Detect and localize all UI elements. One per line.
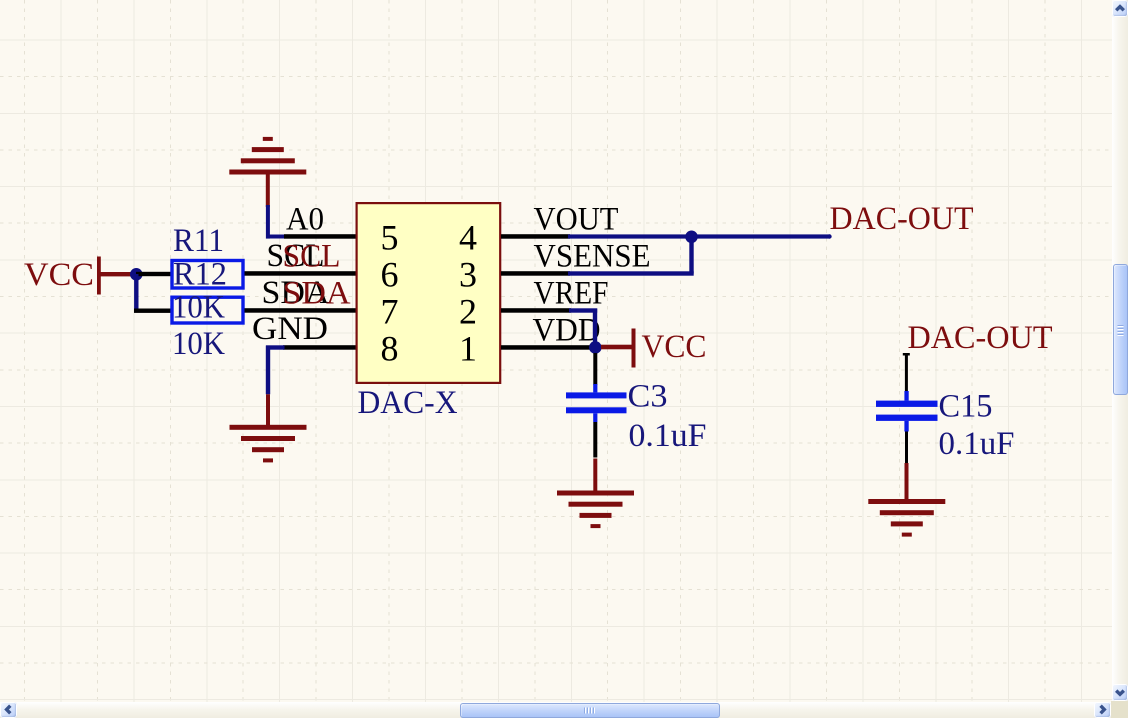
vertical scrollbar thumb bbox=[1113, 264, 1128, 395]
net label SDA (red, overlapping) bbox=[283, 276, 351, 312]
pin 7 (SDA) bbox=[262, 275, 399, 332]
ground symbol (below C3) bbox=[557, 491, 634, 529]
ground symbol (bottom left, GND pin) bbox=[230, 425, 307, 463]
svg-text:0.1uF: 0.1uF bbox=[939, 426, 1015, 462]
svg-text:3: 3 bbox=[459, 255, 477, 295]
wire: VREF to VDD node bbox=[569, 308, 597, 347]
wire: VOUT to DAC-OUT (net) bbox=[568, 234, 830, 238]
svg-text:0.1uF: 0.1uF bbox=[629, 418, 707, 454]
svg-text:4: 4 bbox=[459, 218, 477, 258]
ground symbol (below C15) bbox=[868, 499, 945, 537]
pin 3 (VSENSE) bbox=[459, 239, 651, 295]
svg-text:10K: 10K bbox=[172, 326, 225, 362]
power port VCC (left) bbox=[24, 257, 134, 295]
horizontal scrollbar bbox=[0, 702, 1111, 718]
vertical scrollbar bbox=[1112, 0, 1128, 701]
junction on VDD node bbox=[589, 341, 602, 354]
designator C3 bbox=[628, 379, 668, 415]
svg-text:7: 7 bbox=[381, 292, 399, 332]
svg-text:SCL: SCL bbox=[283, 239, 341, 275]
svg-text:VCC: VCC bbox=[24, 257, 94, 293]
pin 5 (A0) bbox=[284, 202, 399, 258]
wire: DAC-OUT down to C15 bbox=[903, 353, 910, 392]
svg-text:DAC-OUT: DAC-OUT bbox=[908, 320, 1053, 356]
value C15: 0.1uF bbox=[939, 426, 1015, 462]
junction on VCC node (left) bbox=[130, 268, 143, 281]
svg-text:R12: R12 bbox=[173, 257, 227, 293]
svg-text:SDA: SDA bbox=[283, 276, 351, 312]
wire: junction down and back to VSENSE bbox=[568, 237, 694, 276]
designator R11 bbox=[173, 223, 224, 259]
svg-text:GND: GND bbox=[252, 311, 328, 347]
net label SCL (red, overlapping) bbox=[283, 239, 341, 275]
capacitor C3 bbox=[566, 384, 627, 422]
svg-text:DAC-OUT: DAC-OUT bbox=[830, 201, 974, 237]
designator C15 bbox=[939, 389, 993, 425]
wire: VCC junction down to R12 bbox=[134, 274, 171, 313]
wire: R11 to pin 6 bbox=[245, 271, 357, 276]
pin 3 line bbox=[501, 271, 570, 276]
pin 1 (VDD) bbox=[459, 313, 601, 369]
value R12: 10K bbox=[172, 326, 225, 362]
svg-text:10K: 10K bbox=[172, 290, 225, 326]
svg-text:VCC: VCC bbox=[642, 329, 707, 365]
designator R12 (overlapping R11 box) bbox=[173, 257, 227, 293]
pin 5 line bbox=[284, 234, 356, 239]
capacitor C15 bbox=[876, 391, 938, 432]
resistor R11 (box) bbox=[172, 261, 243, 289]
scrollbar corner bbox=[1111, 701, 1128, 718]
ground symbol (top, flipped, on A0 net) bbox=[229, 137, 306, 207]
IC value label DAC-X bbox=[358, 385, 458, 421]
wire: C15 to ground bbox=[905, 432, 909, 500]
horizontal scrollbar thumb bbox=[460, 703, 720, 718]
svg-text:VDD: VDD bbox=[533, 313, 601, 349]
svg-text:2: 2 bbox=[459, 292, 477, 332]
svg-text:A0: A0 bbox=[286, 202, 324, 238]
svg-text:VOUT: VOUT bbox=[534, 202, 619, 238]
svg-text:1: 1 bbox=[459, 329, 477, 369]
pin 1 line bbox=[501, 345, 590, 350]
value R11: 10K (overlapping R12 box) bbox=[172, 290, 225, 326]
pin 2 line bbox=[501, 308, 571, 313]
IC DAC-X body bbox=[357, 203, 501, 383]
pin 2 (VREF) bbox=[459, 276, 609, 332]
svg-text:VREF: VREF bbox=[534, 276, 609, 312]
pin 8 (GND) bbox=[252, 311, 399, 369]
svg-text:C3: C3 bbox=[628, 379, 668, 415]
wire: top ground to pin 5 (A0) bbox=[266, 205, 286, 239]
svg-text:5: 5 bbox=[381, 218, 399, 258]
svg-text:VSENSE: VSENSE bbox=[534, 239, 651, 275]
wire: C3 to ground bbox=[593, 422, 597, 492]
net label DAC-OUT (right branch) bbox=[908, 320, 1053, 356]
pin 4 line bbox=[501, 234, 570, 239]
value C3: 0.1uF bbox=[629, 418, 707, 454]
wire: VDD node down to C3 bbox=[593, 353, 597, 385]
svg-text:R11: R11 bbox=[173, 223, 224, 259]
svg-text:DAC-X: DAC-X bbox=[358, 385, 458, 421]
wire: R12 to pin 7 bbox=[245, 308, 357, 313]
junction on VOUT net bbox=[685, 231, 698, 244]
net label DAC-OUT (on VOUT wire) bbox=[830, 201, 974, 237]
resistor R12 (box) bbox=[172, 297, 243, 323]
svg-text:6: 6 bbox=[381, 255, 399, 295]
wire: pin 8 to bottom-left ground bbox=[266, 345, 285, 425]
pin 6 (SCL) bbox=[267, 238, 399, 295]
wire end dot at DAC-OUT bbox=[827, 234, 831, 238]
pin 4 (VOUT) bbox=[459, 202, 619, 258]
power port VCC (right) bbox=[601, 329, 707, 368]
svg-text:8: 8 bbox=[381, 329, 399, 369]
pin 8 line bbox=[283, 345, 356, 350]
wire: VCC junction to R11 bbox=[136, 272, 171, 276]
svg-text:C15: C15 bbox=[939, 389, 993, 425]
